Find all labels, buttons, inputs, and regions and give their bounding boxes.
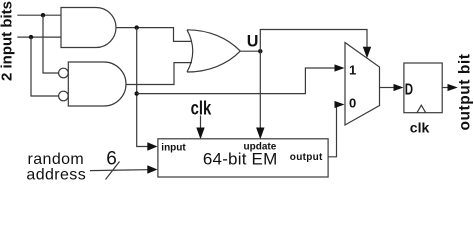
node U junction: [258, 49, 262, 53]
svg-text:clk: clk: [191, 98, 212, 119]
arrow into EM address input: [147, 165, 157, 174]
arrow into mux input 0: [335, 101, 345, 108]
arrow into mux input 1: [335, 64, 345, 71]
svg-text:address: address: [26, 167, 86, 184]
svg-text:1: 1: [349, 62, 356, 77]
DFF U2: [404, 63, 442, 113]
svg-text:64-bit EM: 64-bit EM: [203, 149, 278, 168]
bus slash: [106, 162, 120, 180]
wire EM output to mux input 0: [328, 105, 337, 157]
wire input B: [17, 36, 61, 38]
wire G2 output to OR: [126, 63, 192, 85]
wire clk arrow to EM: [200, 116, 202, 130]
mux M1: [345, 43, 380, 126]
wire G1 output to OR: [116, 28, 192, 42]
svg-text:6: 6: [106, 149, 117, 170]
svg-text:0: 0: [349, 95, 356, 110]
wire AND output to mux input 1: [137, 68, 335, 94]
svg-text:output: output: [290, 152, 323, 163]
svg-text:random: random: [28, 151, 85, 168]
svg-text:input: input: [161, 143, 186, 154]
EM box U3: [158, 139, 328, 177]
svg-text:D: D: [405, 79, 413, 97]
svg-text:clk: clk: [410, 119, 430, 135]
node branch to mux junction: [135, 91, 139, 95]
node A junction: [41, 13, 45, 17]
wire U down to EM update: [259, 51, 261, 129]
arrow into EM update: [256, 128, 264, 140]
svg-text:output bit: output bit: [457, 54, 474, 131]
bubble G2 input 2: [59, 91, 69, 101]
wire A fanout to inverted input: [43, 15, 59, 73]
svg-text:2 input bits: 2 input bits: [0, 1, 16, 81]
OR gate G3: [187, 30, 240, 72]
bubble G2 input 1: [59, 68, 69, 78]
DFF clock triangle: [417, 105, 426, 113]
wire random address to EM: [90, 169, 148, 172]
node G1 output junction: [135, 25, 139, 29]
wire OR output to node U: [240, 50, 260, 52]
wire U up to mux select: [260, 30, 367, 52]
wire mux output to DFF: [380, 87, 395, 89]
AND gate G2 (inverted inputs): [68, 62, 126, 106]
arrow output bit: [448, 84, 458, 91]
wire B fanout to inverted input: [31, 37, 59, 96]
wire DFF output: [442, 87, 448, 89]
arrow into DFF D: [394, 84, 404, 91]
node B junction: [29, 35, 33, 39]
svg-text:U: U: [247, 31, 259, 50]
arrow into mux select: [363, 47, 371, 58]
arrow clk into EM: [196, 128, 204, 140]
wire G1 output down to EM input: [137, 28, 148, 147]
wire input A: [17, 14, 61, 16]
arrow into EM input: [147, 142, 157, 151]
AND gate G1: [61, 8, 116, 48]
